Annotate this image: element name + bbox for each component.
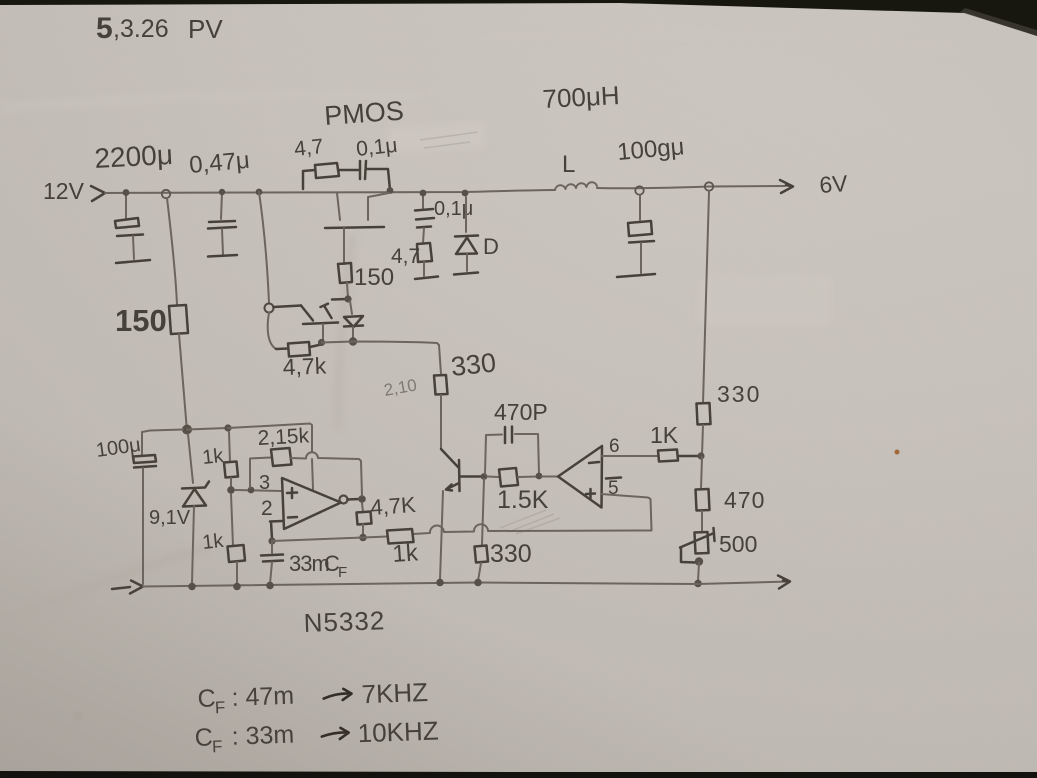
svg-text:33m: 33m	[289, 551, 329, 576]
capacitor C2 0.47u	[208, 192, 237, 257]
wire rail to Q1	[259, 192, 269, 303]
value label 33m CF	[289, 551, 347, 581]
snubber loop wire	[303, 170, 315, 189]
svg-text:D: D	[483, 234, 499, 259]
svg-text:2200μ: 2200μ	[94, 139, 174, 174]
capacitor 470P loop	[485, 427, 539, 475]
svg-text:PV: PV	[188, 14, 223, 44]
junction dot 0.1u mid	[420, 190, 427, 197]
wire 470 to pot	[701, 511, 703, 532]
svg-text:5: 5	[96, 12, 113, 45]
svg-text:10KHZ: 10KHZ	[357, 715, 439, 748]
svg-text:6V: 6V	[819, 170, 850, 198]
wire U1 output to node	[348, 498, 360, 501]
wire 4.7 to end bar	[423, 262, 425, 276]
svg-text:150: 150	[354, 264, 394, 291]
resistor 2.15K feedback	[250, 448, 362, 496]
svg-text:0,1μ: 0,1μ	[434, 198, 473, 220]
resistor 150 (gate)	[338, 263, 352, 283]
svg-text:0,47μ: 0,47μ	[188, 147, 251, 179]
resistor 470 (right rail)	[696, 489, 710, 511]
resistor 150 (left)	[169, 305, 188, 334]
wire right feedback rail top	[703, 191, 709, 403]
op-amp U2	[558, 446, 602, 508]
ground rail arrow right	[778, 576, 790, 589]
capacitor 0.1u (mid)	[415, 196, 434, 243]
wire node to 470	[701, 457, 702, 489]
svg-text:1k: 1k	[201, 445, 225, 469]
svg-text:: 33m: : 33m	[231, 721, 294, 751]
junction dot ground CF	[266, 582, 274, 590]
resistor 330 (right rail)	[697, 403, 711, 425]
svg-text:1k: 1k	[392, 539, 420, 568]
wire divider to plus input	[235, 490, 281, 491]
junction dot inverting node	[268, 537, 275, 544]
wire 150 left to node A	[179, 334, 187, 425]
wire M1 gate down	[343, 228, 345, 264]
svg-text:1k: 1k	[201, 530, 225, 554]
junction dot diode branch	[462, 190, 469, 197]
junction dot right rail 1K node	[697, 452, 704, 459]
wire pot to bottom rail	[698, 563, 699, 581]
svg-text:700μH: 700μH	[542, 80, 621, 114]
svg-text:4,7K: 4,7K	[370, 492, 417, 520]
note CF 33m	[194, 715, 439, 756]
svg-text:6: 6	[609, 436, 620, 457]
node ring feedback tap	[705, 182, 713, 190]
transistor Q2	[441, 449, 483, 491]
wire gate resistor to node	[347, 283, 348, 298]
svg-text:C: C	[194, 723, 213, 752]
wire snubber right	[366, 169, 390, 190]
svg-text:3: 3	[259, 472, 270, 494]
junction dot mid line left	[359, 534, 367, 542]
svg-text:2,15k: 2,15k	[257, 424, 310, 450]
transistor Q1	[274, 299, 348, 340]
node A junction dot	[182, 425, 192, 435]
junction dot ground zener	[188, 583, 196, 591]
svg-text:1K: 1K	[650, 422, 679, 448]
wire 330 mid to bottom	[478, 563, 481, 581]
svg-text:150: 150	[115, 303, 167, 338]
svg-text:7KHZ: 7KHZ	[361, 677, 429, 709]
resistor 4.7K (U1 out)	[357, 503, 372, 535]
wire 4.7k line to 330	[322, 342, 442, 375]
junction dot C2	[219, 189, 225, 195]
junction dot ground 330	[474, 579, 482, 587]
note CF 47m	[197, 677, 429, 718]
svg-text:0,1μ: 0,1μ	[355, 134, 398, 161]
title text 5,3.26 PV	[96, 12, 223, 45]
wire 1K to right rail	[678, 455, 699, 458]
svg-text:330: 330	[490, 540, 532, 568]
diode D (freewheel)	[454, 197, 478, 275]
wire top rail	[105, 186, 785, 193]
op-amp U1	[282, 478, 341, 529]
junction dot Q1 branch	[256, 189, 263, 196]
transistor M1 PMOS drain lead	[368, 193, 389, 220]
junction dot bottom right	[694, 580, 702, 588]
svg-text:330: 330	[449, 347, 497, 382]
junction dot ground 1k	[233, 583, 241, 591]
wire ground rail	[143, 582, 789, 587]
wire U2 pin5	[601, 494, 652, 530]
wire Q1 branch curve to 4.7k line	[268, 313, 276, 350]
potentiometer 500	[680, 528, 715, 566]
resistor 4.7k	[276, 342, 321, 357]
svg-text:500: 500	[719, 531, 757, 557]
junction dot bias 1K tap	[224, 424, 231, 431]
resistor 1K (upper)	[224, 432, 238, 488]
resistor 1K (lower)	[228, 494, 246, 585]
wire mid line with hops	[272, 524, 652, 541]
resistor 1K (right)	[658, 450, 678, 462]
junction dot snubber right	[387, 187, 394, 194]
diode D1 (clamp)	[344, 301, 363, 340]
transistor M1 PMOS source lead	[337, 193, 340, 220]
capacitor C1 2200u	[115, 194, 150, 263]
capacitor C4 100u (ref)	[133, 455, 156, 584]
svg-text:4,7k: 4,7k	[282, 352, 327, 380]
resistor 330 (mid)	[475, 546, 489, 563]
svg-text:470: 470	[724, 487, 765, 513]
svg-text:470P: 470P	[494, 399, 548, 425]
svg-text:F: F	[215, 698, 226, 717]
capacitor C3 100u out	[617, 195, 655, 277]
svg-text:4,7: 4,7	[391, 245, 420, 268]
junction dot 1.5K right node	[536, 473, 543, 480]
wire node A to bias line	[187, 428, 227, 430]
svg-text:,3.26: ,3.26	[113, 15, 169, 43]
svg-text:2: 2	[261, 497, 273, 520]
capacitor CF 33m	[261, 542, 283, 584]
svg-text:N5332: N5332	[303, 605, 386, 638]
inductor L	[555, 182, 597, 190]
svg-text:1.5K: 1.5K	[497, 486, 549, 514]
node ring to 150 branch	[162, 190, 170, 198]
resistor 330 (base)	[434, 375, 448, 395]
resistor 1K (mid)	[387, 529, 414, 544]
wire 330 to node	[702, 425, 703, 455]
input arrow	[91, 186, 105, 201]
resistor 4.7 (mid)	[417, 243, 432, 262]
junction dot 1.5K left node	[481, 473, 488, 480]
zener diode 9.1V	[182, 482, 209, 584]
resistor 4.7 (snubber)	[315, 163, 339, 178]
svg-text:PMOS: PMOS	[323, 96, 404, 131]
transistor Q1 base ring	[265, 304, 274, 313]
svg-text:9,1V: 9,1V	[149, 507, 191, 529]
junction dot U1 output	[358, 495, 366, 503]
junction dot 2.15k tap	[248, 487, 255, 494]
svg-text:L: L	[562, 151, 575, 178]
svg-text:330: 330	[717, 381, 761, 407]
wire 330 to Q2	[440, 395, 442, 449]
op-amp U1 output bubble	[340, 496, 348, 504]
transistor M1 PMOS channel bar	[325, 227, 384, 228]
6V output arrow	[780, 180, 793, 193]
wire 330 mid branch	[482, 479, 484, 545]
wire Q2 emitter down	[440, 491, 443, 580]
junction dot diode cathode line	[349, 337, 357, 345]
junction dot C1	[123, 189, 130, 196]
resistor 1.5K	[487, 468, 538, 487]
wire node A left	[142, 430, 183, 456]
capacitor 0.1u (snubber)	[360, 161, 366, 179]
junction dot Q1 emitter line	[318, 339, 325, 346]
svg-text:F: F	[212, 737, 223, 756]
wire bias line right and down	[228, 424, 313, 490]
junction dot 150-gate node	[344, 295, 351, 302]
svg-text:12V: 12V	[43, 178, 85, 204]
svg-text:4,7: 4,7	[293, 135, 324, 161]
svg-text:C: C	[197, 684, 216, 713]
wire U1 inverting input	[270, 521, 282, 539]
end bar 4.7 branch	[415, 277, 438, 280]
svg-text:F: F	[338, 564, 347, 581]
wire to op-amp U2 inverting input	[542, 476, 558, 478]
wire left branch down from ring	[167, 198, 177, 305]
wire node A down to zener	[188, 434, 193, 483]
ground rail arrow left	[112, 581, 143, 594]
wire U2 output pin6	[602, 455, 658, 457]
junction dot divider node	[227, 486, 235, 494]
junction dot ground Q2	[436, 579, 444, 587]
node ring 100u out	[635, 186, 643, 194]
pin label 5 with bar	[606, 478, 621, 500]
wire snubber mid	[338, 169, 358, 172]
svg-text:: 47m: : 47m	[231, 682, 294, 712]
